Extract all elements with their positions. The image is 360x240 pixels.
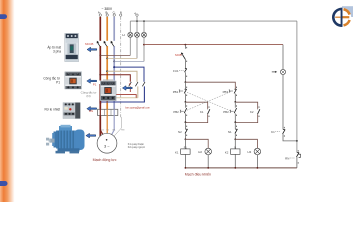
svg-text:(N): (N) [86,94,90,98]
svg-text:RN: RN [121,129,125,131]
svg-text:3 ~: 3 ~ [104,143,110,148]
svg-text:Rơ le nhiệt: Rơ le nhiệt [44,108,60,112]
svg-text:K2 quay ngược: K2 quay ngược [128,146,146,149]
svg-text:PB1: PB1 [173,90,179,94]
svg-text:K2: K2 [250,110,254,114]
svg-text:K2: K2 [225,150,229,154]
svg-text:N: N [129,82,131,86]
svg-text:Mạch điều khiển: Mạch điều khiển [185,173,211,177]
svg-text:H3: H3 [247,150,251,154]
svg-text:MCCB: MCCB [85,42,93,46]
svg-text:3 pha: 3 pha [53,49,61,53]
svg-text:K1: K1 [271,130,275,134]
svg-text:RN: RN [285,157,289,161]
svg-text:Mạch động lực: Mạch động lực [93,158,117,162]
svg-text:N1: N1 [228,130,232,134]
svg-text:K1: K1 [200,110,204,114]
svg-text:~ 380V: ~ 380V [102,7,113,11]
svg-text:K1: K1 [175,150,179,154]
svg-text:N: N [234,146,236,149]
svg-text:H: H [122,33,124,37]
svg-text:FU1: FU1 [173,69,179,73]
svg-text:RN: RN [89,109,93,113]
svg-text:PB3: PB3 [223,90,229,94]
svg-text:ban.quang@gmail.com: ban.quang@gmail.com [125,106,150,109]
svg-text:P1: P1 [93,82,97,86]
svg-text:MCB: MCB [175,53,181,57]
svg-text:P1: P1 [56,81,60,85]
svg-text:PB2: PB2 [173,110,179,114]
svg-text:PB2: PB2 [223,110,229,114]
svg-text:H2: H2 [198,150,202,154]
svg-text:N2: N2 [178,130,182,134]
